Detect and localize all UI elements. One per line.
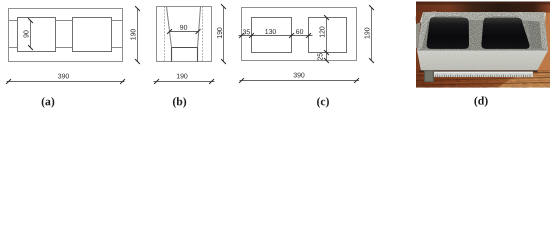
svg-text:25: 25 — [318, 53, 325, 61]
svg-text:35: 35 — [243, 29, 251, 36]
svg-text:390: 390 — [58, 73, 70, 80]
svg-text:(d): (d) — [474, 94, 488, 107]
svg-text:60: 60 — [296, 29, 304, 36]
svg-text:90: 90 — [24, 30, 31, 38]
svg-text:120: 120 — [320, 26, 327, 38]
svg-text:190: 190 — [131, 29, 138, 41]
svg-text:(c): (c) — [316, 95, 329, 108]
svg-text:190: 190 — [176, 73, 188, 80]
svg-text:390: 390 — [293, 72, 305, 79]
svg-text:130: 130 — [265, 29, 277, 36]
svg-text:(b): (b) — [172, 95, 186, 108]
svg-text:190: 190 — [217, 27, 224, 39]
svg-text:(a): (a) — [41, 95, 55, 108]
svg-text:90: 90 — [180, 25, 188, 32]
svg-text:190: 190 — [365, 27, 372, 39]
